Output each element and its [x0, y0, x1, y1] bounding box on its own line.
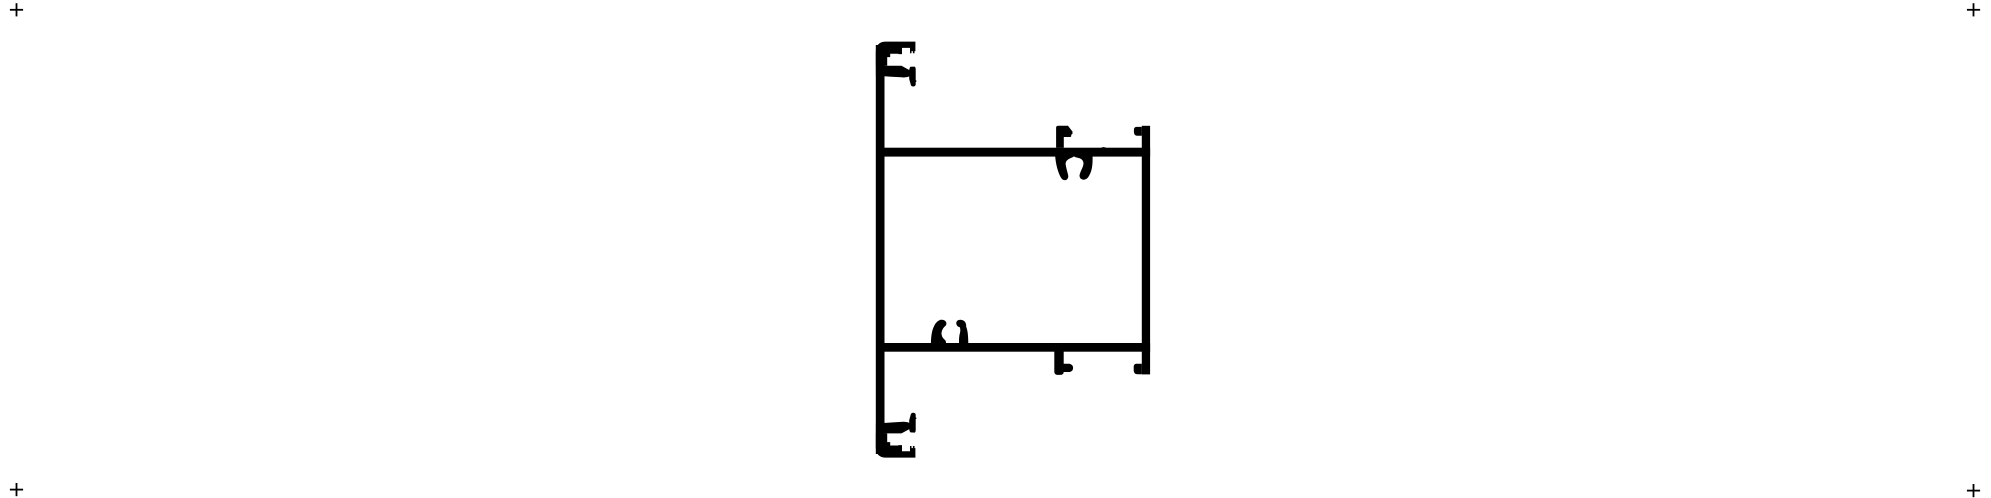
right spine [1142, 126, 1150, 375]
registration cross bottom-left [10, 483, 23, 496]
top rail [884, 148, 1150, 157]
right spine bottom foot [1134, 364, 1142, 374]
right spine top cap [1134, 127, 1142, 136]
top hook lower arm [876, 66, 910, 78]
bottom boss left hook [931, 320, 947, 343]
top hook outer column [909, 67, 917, 87]
registration cross top-right [1967, 3, 1980, 16]
bottom hook bottom bar with stepped topside [876, 433, 916, 457]
top screw boss left claw [1055, 156, 1073, 180]
small bump on top rail top edge [1101, 146, 1107, 149]
bottom rail [884, 343, 1150, 352]
registration cross bottom-right [1967, 484, 1980, 497]
top hook top bar with stepped underside [876, 42, 916, 66]
bottom hook outer column [909, 413, 917, 433]
glazing tab above top rail [1056, 126, 1072, 148]
bottom boss right hook [956, 320, 968, 343]
top screw boss right claw [1075, 156, 1093, 179]
bottom hook upper arm [876, 422, 910, 434]
registration cross top-left [10, 3, 23, 16]
bottom tab below bottom rail [1054, 352, 1073, 375]
left spine [876, 45, 885, 454]
bottom hook (mirror of top hook) [876, 413, 917, 458]
